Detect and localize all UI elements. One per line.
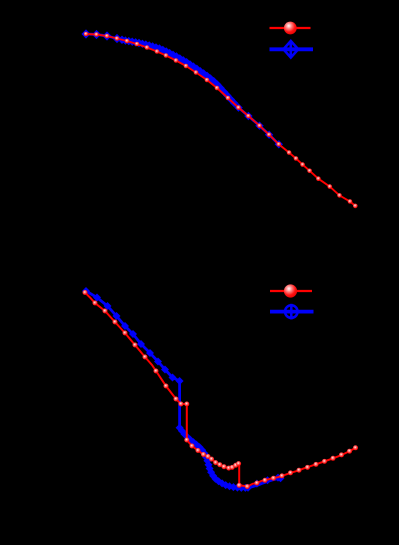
legend (top plot): red entry line <box>270 27 311 29</box>
bottom plot: blue curve line <box>86 291 281 488</box>
top plot: blue diamond markers <box>81 29 121 43</box>
legend (top plot): red glossy ball marker <box>284 22 297 35</box>
bottom plot: red curve line <box>85 293 356 487</box>
legend (top plot): blue entry line <box>270 47 314 51</box>
top plot: red ball markers <box>84 32 358 209</box>
bottom plot: red ball markers <box>83 290 359 489</box>
bottom plot: blue diamond markers <box>82 287 285 492</box>
legend (bottom plot): blue circle-plus marker <box>284 304 300 320</box>
legend (bottom plot): blue entry line <box>270 310 314 314</box>
legend (bottom plot): red glossy ball marker <box>284 284 297 297</box>
legend (bottom plot): red entry line <box>270 290 312 292</box>
top plot: blue curve (thick line) <box>86 34 281 146</box>
legend (top plot): blue diamond-plus marker <box>283 41 298 58</box>
top plot: red curve line <box>86 34 355 206</box>
